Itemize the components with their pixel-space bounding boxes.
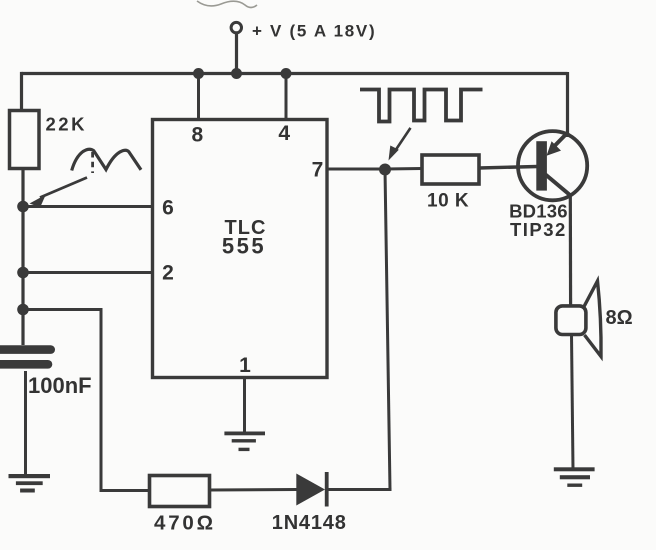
resistor R 22K body xyxy=(10,111,40,169)
wire pin2 xyxy=(23,271,153,274)
pin label 6 xyxy=(162,197,174,220)
sawtooth waveform sketch xyxy=(72,149,141,170)
wire R22K to node6 xyxy=(21,169,24,346)
dashed line waveform xyxy=(91,152,94,173)
svg-text:4: 4 xyxy=(278,122,290,145)
transistor collector diagonal xyxy=(546,175,571,196)
svg-text:2: 2 xyxy=(162,262,174,285)
label 100nF xyxy=(28,373,92,398)
pin label 7 xyxy=(312,159,324,182)
wire pin1 to ground xyxy=(243,378,246,434)
label TLC 555 xyxy=(222,217,267,259)
wire node to R10K xyxy=(385,167,422,171)
svg-text:100nF: 100nF xyxy=(28,373,92,398)
diode D 1N4148 triangle xyxy=(296,474,325,506)
svg-text:22K: 22K xyxy=(46,113,87,134)
wire speaker to ground xyxy=(572,335,574,470)
wire R470 to diode xyxy=(210,488,297,492)
node dot pin2 xyxy=(17,267,29,279)
arrow square wave to node xyxy=(394,128,411,153)
pin label 8 xyxy=(191,124,203,147)
svg-text:10 K: 10 K xyxy=(427,191,469,212)
arrow waveform to node6 xyxy=(40,178,87,198)
junction dot pin4 bus xyxy=(281,68,292,79)
wire pin6 xyxy=(23,205,153,208)
transistor base bar xyxy=(536,141,547,190)
wire bus to emitter xyxy=(566,72,569,137)
svg-text:555: 555 xyxy=(222,234,266,259)
svg-text:1: 1 xyxy=(239,354,251,377)
wire top bus xyxy=(22,72,568,75)
diode cathode bar xyxy=(325,472,329,507)
wire diode to riser xyxy=(329,488,392,491)
scan squiggle artifact top xyxy=(197,1,257,8)
svg-text:+ V (5 A 18V): + V (5 A 18V) xyxy=(252,22,376,41)
label 22K xyxy=(46,113,87,134)
square wave sketch xyxy=(360,90,483,122)
wire pin7 xyxy=(327,168,385,171)
capacitor C 100nF plate2 xyxy=(0,360,52,369)
label TIP32 xyxy=(510,219,567,240)
speaker horn xyxy=(584,281,602,357)
label 8ohm xyxy=(606,307,633,329)
wire pin8 xyxy=(197,74,200,120)
pin label 2 xyxy=(162,262,174,285)
transistor emitter diagonal with arrow (PNP) xyxy=(553,132,568,148)
IC U1 TLC555 body xyxy=(153,120,328,378)
resistor R 470 body xyxy=(150,476,210,507)
label BD136 xyxy=(509,201,568,222)
label 470ohm xyxy=(154,512,216,535)
wire pin4 xyxy=(285,74,288,120)
wire cap to ground xyxy=(24,371,27,475)
junction dot supply bus xyxy=(231,68,242,79)
svg-text:TIP32: TIP32 xyxy=(510,219,567,240)
resistor R 10K body xyxy=(422,155,479,184)
junction dot pin8 bus xyxy=(193,68,204,79)
wire terminal to bus xyxy=(235,33,238,74)
transistor Q1 circle xyxy=(518,131,587,200)
ground pin1 xyxy=(224,432,265,452)
pin label 1 xyxy=(239,354,251,377)
junction node pin7 xyxy=(379,164,391,176)
speaker LS1 box xyxy=(556,306,586,335)
ground left xyxy=(9,474,51,493)
node dot cap branch xyxy=(17,304,29,316)
node supply label xyxy=(252,22,376,41)
svg-text:8: 8 xyxy=(191,124,203,147)
wire node7 down to diode run xyxy=(385,170,390,490)
ground right xyxy=(554,467,595,487)
wire R10K to base xyxy=(479,167,538,169)
svg-text:6: 6 xyxy=(162,197,174,220)
wire collector to speaker xyxy=(569,193,572,306)
svg-text:8Ω: 8Ω xyxy=(606,307,633,329)
wire node to bottom run xyxy=(23,310,150,491)
svg-text:7: 7 xyxy=(312,159,324,182)
capacitor C 100nF plate1 xyxy=(0,345,55,354)
node dot pin6 xyxy=(17,201,29,213)
pin label 4 xyxy=(278,122,290,145)
label 10 K xyxy=(427,191,469,212)
svg-text:470Ω: 470Ω xyxy=(154,512,216,535)
label 1N4148 xyxy=(272,512,347,534)
+V supply terminal xyxy=(231,22,241,32)
wire bus to R22K xyxy=(20,72,23,111)
svg-text:1N4148: 1N4148 xyxy=(272,512,347,534)
